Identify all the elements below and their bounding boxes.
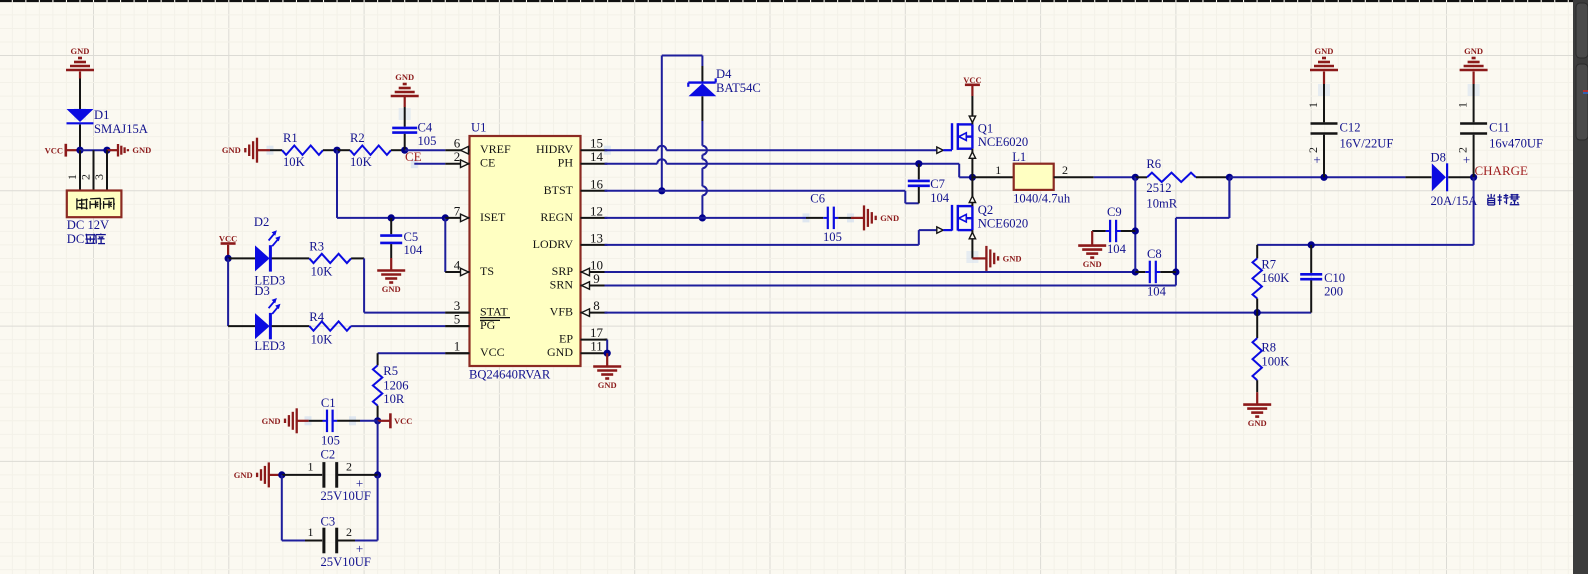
svg-text:PH: PH	[558, 156, 574, 170]
svg-text:VCC: VCC	[219, 234, 237, 244]
svg-text:D3: D3	[254, 284, 269, 298]
svg-text:1: 1	[1456, 102, 1470, 108]
svg-text:GND: GND	[395, 72, 414, 82]
svg-text:1: 1	[308, 460, 314, 474]
svg-text:NCE6020: NCE6020	[978, 217, 1028, 231]
svg-text:10mR: 10mR	[1146, 197, 1177, 211]
svg-text:L1: L1	[1012, 150, 1026, 164]
svg-text:NCE6020: NCE6020	[978, 135, 1028, 149]
svg-text:TS: TS	[480, 264, 494, 278]
svg-text:GND: GND	[382, 284, 401, 294]
svg-text:Q1: Q1	[978, 122, 993, 136]
svg-text:104: 104	[404, 243, 424, 257]
svg-text:Q2: Q2	[978, 203, 993, 217]
svg-text:VCC: VCC	[394, 416, 412, 426]
svg-text:GND: GND	[1248, 418, 1267, 428]
svg-text:10K: 10K	[350, 155, 372, 169]
svg-text:GND: GND	[132, 145, 151, 155]
svg-text:GND: GND	[1464, 46, 1483, 56]
svg-text:16v470UF: 16v470UF	[1489, 137, 1543, 151]
svg-text:CHARGE: CHARGE	[1475, 163, 1529, 178]
svg-text:R3: R3	[309, 240, 324, 254]
svg-text:2: 2	[1062, 163, 1068, 177]
svg-text:D8: D8	[1431, 151, 1446, 165]
svg-text:10K: 10K	[311, 264, 333, 278]
svg-text:VREF: VREF	[480, 142, 511, 156]
svg-text:104: 104	[930, 191, 950, 205]
svg-text:C11: C11	[1489, 121, 1510, 135]
svg-text:105: 105	[823, 230, 842, 244]
svg-text:10K: 10K	[311, 333, 333, 347]
svg-text:HIDRV: HIDRV	[536, 142, 573, 156]
svg-text:GND: GND	[1083, 259, 1102, 269]
svg-text:R8: R8	[1261, 341, 1276, 355]
svg-text:VFB: VFB	[550, 305, 573, 319]
svg-text:R5: R5	[383, 364, 398, 378]
svg-text:2512: 2512	[1146, 181, 1171, 195]
svg-text:SRN: SRN	[550, 278, 574, 292]
svg-text:R2: R2	[350, 131, 365, 145]
svg-text:R7: R7	[1261, 258, 1276, 272]
svg-text:DC: DC	[67, 232, 85, 246]
svg-text:104: 104	[1107, 242, 1127, 256]
svg-text:11: 11	[590, 339, 603, 354]
svg-text:C8: C8	[1147, 247, 1162, 261]
svg-text:LED3: LED3	[254, 339, 285, 353]
svg-text:VCC: VCC	[480, 345, 505, 359]
svg-text:105: 105	[321, 434, 340, 448]
svg-text:7: 7	[454, 203, 461, 218]
svg-text:C9: C9	[1107, 205, 1122, 219]
svg-text:DC 12V: DC 12V	[67, 218, 109, 232]
svg-text:1206: 1206	[383, 379, 408, 393]
svg-text:C7: C7	[930, 177, 945, 191]
svg-text:GND: GND	[598, 380, 617, 390]
svg-text:13: 13	[590, 230, 603, 245]
svg-text:GND: GND	[71, 46, 90, 56]
svg-text:R1: R1	[283, 131, 298, 145]
svg-text:104: 104	[1147, 285, 1167, 299]
svg-text:+: +	[1463, 152, 1470, 167]
svg-text:5: 5	[454, 312, 461, 327]
svg-text:3: 3	[92, 174, 106, 180]
svg-text:R6: R6	[1146, 157, 1161, 171]
svg-text:10R: 10R	[383, 392, 405, 406]
svg-text:1: 1	[308, 525, 314, 539]
svg-text:VCC: VCC	[45, 146, 63, 156]
svg-text:16V/22UF: 16V/22UF	[1340, 137, 1394, 151]
svg-text:STAT: STAT	[480, 305, 508, 319]
svg-text:GND: GND	[880, 213, 899, 223]
svg-text:BQ24640RVAR: BQ24640RVAR	[469, 368, 551, 382]
svg-text:2: 2	[346, 525, 352, 539]
svg-text:SRP: SRP	[552, 264, 574, 278]
svg-text:REGN: REGN	[540, 210, 573, 224]
svg-text:LODRV: LODRV	[533, 237, 574, 251]
svg-text:CE: CE	[405, 149, 422, 164]
svg-text:100K: 100K	[1261, 355, 1289, 369]
svg-text:D2: D2	[254, 215, 269, 229]
svg-text:1: 1	[454, 339, 461, 354]
svg-text:ISET: ISET	[480, 210, 506, 224]
svg-text:CE: CE	[480, 156, 495, 170]
svg-text:2: 2	[454, 149, 461, 164]
svg-text:BAT54C: BAT54C	[716, 81, 761, 95]
svg-text:25V10UF: 25V10UF	[321, 489, 371, 503]
svg-text:160K: 160K	[1261, 271, 1289, 285]
svg-text:GND: GND	[234, 470, 253, 480]
svg-text:C2: C2	[321, 448, 336, 462]
svg-text:12: 12	[590, 203, 603, 218]
svg-text:BTST: BTST	[544, 183, 574, 197]
svg-text:1: 1	[995, 163, 1001, 177]
svg-text:2: 2	[346, 460, 352, 474]
svg-text:C12: C12	[1340, 121, 1361, 135]
svg-text:GND: GND	[1003, 253, 1022, 263]
svg-text:C3: C3	[321, 515, 336, 529]
svg-text:EP: EP	[559, 332, 573, 346]
svg-text:C1: C1	[321, 396, 336, 410]
svg-text:U1: U1	[471, 121, 486, 135]
svg-text:GND: GND	[1315, 46, 1334, 56]
svg-text:D4: D4	[716, 67, 732, 81]
svg-text:GND: GND	[547, 345, 573, 359]
svg-text:R4: R4	[309, 310, 324, 324]
svg-text:C10: C10	[1324, 271, 1345, 285]
svg-text:25V10UF: 25V10UF	[321, 555, 371, 569]
svg-text:+: +	[1313, 152, 1320, 167]
svg-text:D1: D1	[94, 108, 109, 122]
svg-text:4: 4	[454, 258, 461, 273]
svg-text:GND: GND	[262, 416, 281, 426]
svg-text:C6: C6	[810, 192, 825, 206]
svg-text:C5: C5	[404, 230, 419, 244]
svg-text:C4: C4	[418, 121, 433, 135]
svg-text:10K: 10K	[283, 155, 305, 169]
svg-text:9: 9	[593, 271, 600, 286]
svg-text:16: 16	[590, 176, 604, 191]
svg-text:200: 200	[1324, 285, 1343, 299]
svg-text:GND: GND	[222, 145, 241, 155]
svg-text:+: +	[356, 541, 363, 556]
svg-text:1: 1	[1306, 102, 1320, 108]
svg-text:2: 2	[79, 174, 93, 180]
svg-text:VCC: VCC	[963, 75, 981, 85]
svg-text:105: 105	[418, 134, 437, 148]
svg-text:20A/15A: 20A/15A	[1431, 194, 1478, 208]
svg-text:1: 1	[65, 174, 79, 180]
svg-text:14: 14	[590, 149, 604, 164]
svg-text:SMAJ15A: SMAJ15A	[94, 122, 148, 136]
svg-text:1040/4.7uh: 1040/4.7uh	[1013, 192, 1071, 206]
svg-text:8: 8	[593, 298, 600, 313]
